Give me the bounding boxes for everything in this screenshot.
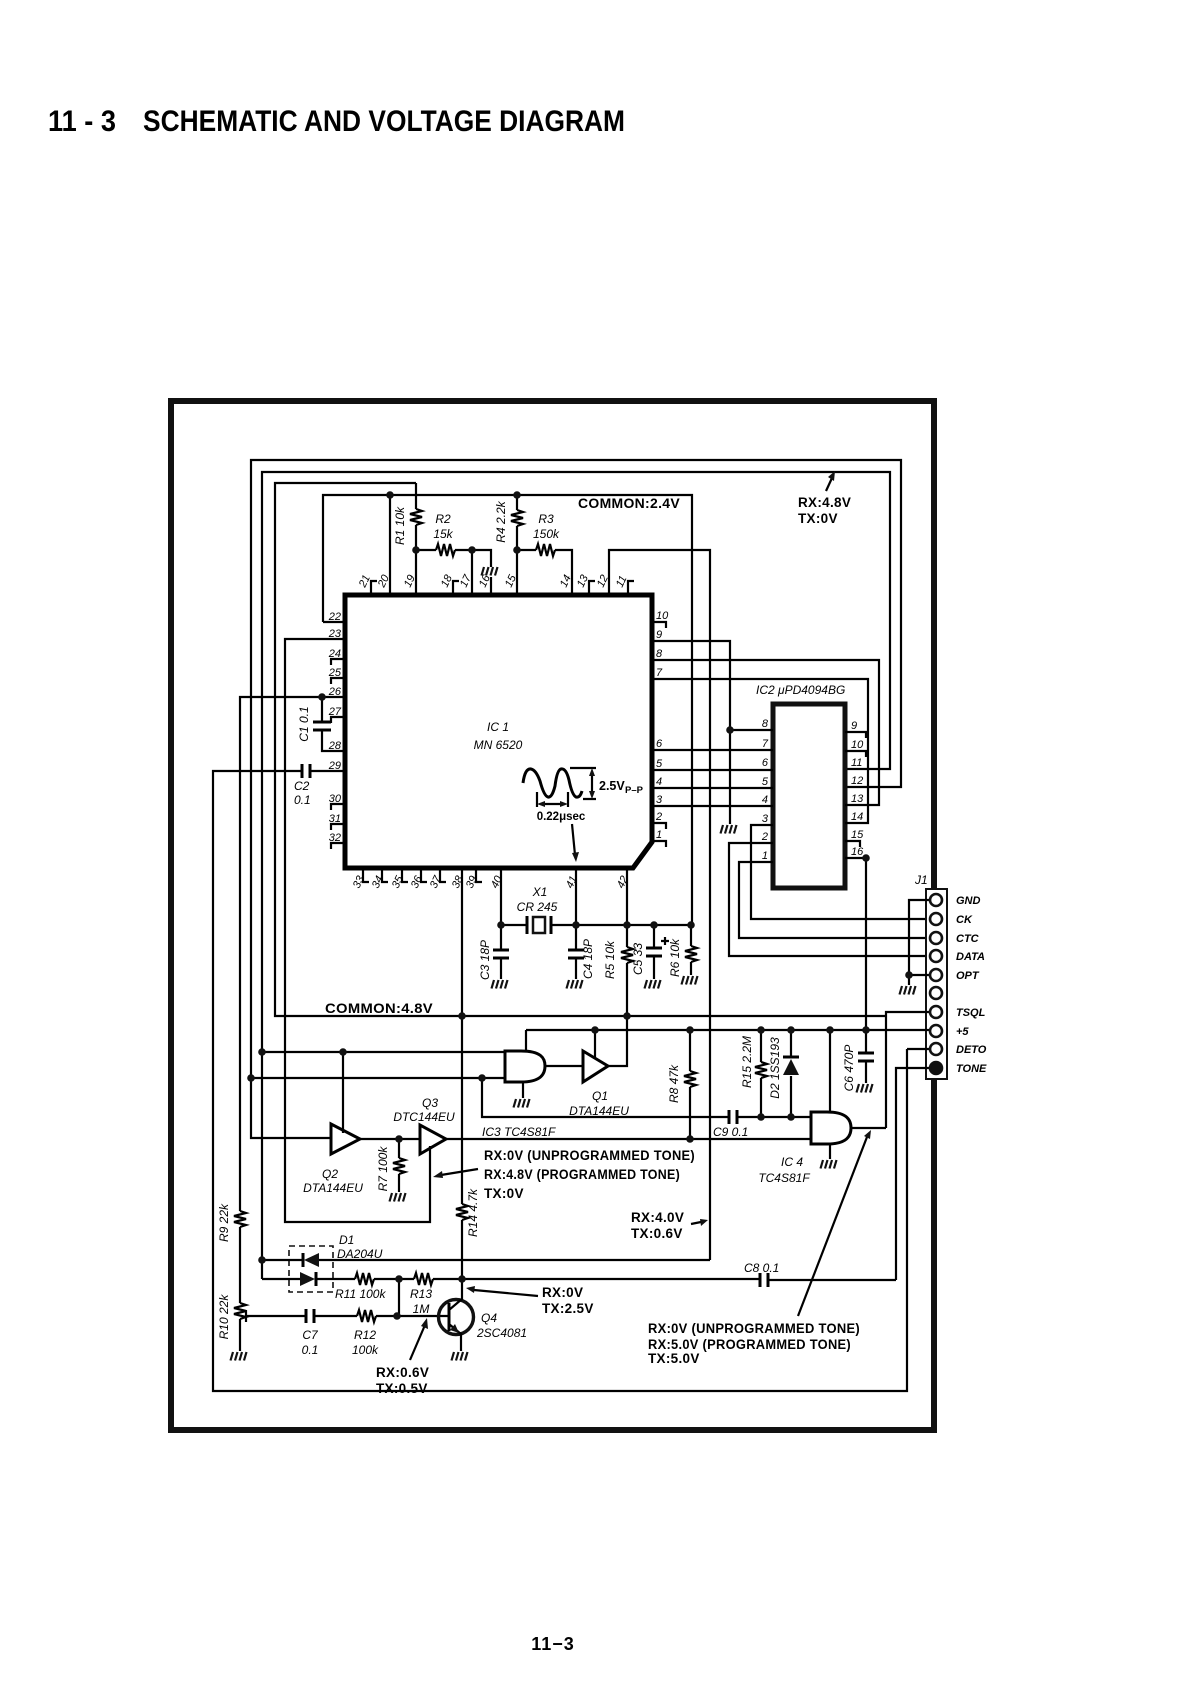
svg-text:TX:0V: TX:0V: [798, 511, 838, 526]
resistor R5 10k on pin42: [626, 868, 628, 947]
svg-text:TX:0.5V: TX:0.5V: [376, 1381, 428, 1396]
svg-text:C3 18P: C3 18P: [478, 940, 492, 980]
resistor R4 2.2k: [516, 495, 518, 510]
capacitor C5 33 electrolytic: [653, 925, 655, 979]
svg-text:C8 0.1: C8 0.1: [744, 1261, 779, 1275]
svg-text:TSQL: TSQL: [956, 1007, 986, 1019]
svg-text:X1: X1: [532, 885, 548, 899]
capacitor C2 0.1 on pin29 line: [213, 771, 907, 1391]
IC3 ground: [522, 1082, 524, 1098]
diode D2 1SS193: [790, 1030, 792, 1117]
svg-text:4: 4: [656, 776, 662, 788]
svg-text:TX:2.5V: TX:2.5V: [542, 1301, 594, 1316]
resistor R11 100k: [355, 1273, 374, 1285]
svg-text:TONE: TONE: [956, 1063, 987, 1075]
svg-text:14: 14: [851, 811, 863, 823]
svg-text:RX:0V: RX:0V: [542, 1285, 583, 1300]
svg-text:150k: 150k: [533, 527, 560, 541]
J1 pin DETO: [930, 1043, 942, 1055]
svg-text:D2 1SS193: D2 1SS193: [768, 1037, 782, 1099]
svg-text:11: 11: [851, 757, 862, 769]
resistor R15 2.2M: [760, 1030, 762, 1062]
wire IC1 pin23 to Q3 base loop: [285, 639, 430, 1222]
svg-text:C2: C2: [294, 779, 310, 793]
capacitor C3 18P: [500, 925, 502, 979]
svg-text:J1: J1: [914, 873, 928, 887]
svg-text:COMMON:2.4V: COMMON:2.4V: [578, 496, 680, 511]
outer schematic frame: [171, 401, 934, 1430]
svg-text:C7: C7: [302, 1328, 319, 1342]
wire IC1 pin7 to IC2 pin14: [652, 679, 868, 823]
resistor R10 22k: [234, 1303, 246, 1319]
svg-text:TC4S81F: TC4S81F: [758, 1171, 810, 1185]
svg-text:7: 7: [762, 738, 769, 750]
svg-text:RX:0.6V: RX:0.6V: [376, 1365, 429, 1380]
svg-text:MN 6520: MN 6520: [474, 738, 523, 752]
diode D1 DA204U dual: [289, 1246, 333, 1292]
wire COMMON 2.4V rect (pin22 to crystal bias): [323, 495, 692, 925]
svg-text:R6 10k: R6 10k: [668, 938, 682, 977]
transistor Q3 DTC144EU: [420, 1125, 446, 1154]
svg-text:1: 1: [762, 850, 768, 862]
wire tap to Q2 top: [342, 1052, 344, 1133]
svg-text:CR 245: CR 245: [517, 900, 558, 914]
J1 pin DATA: [930, 950, 942, 962]
svg-text:GND: GND: [956, 895, 981, 907]
svg-text:R13: R13: [410, 1287, 432, 1301]
svg-text:C9 0.1: C9 0.1: [713, 1125, 748, 1139]
svg-text:3: 3: [656, 794, 663, 806]
svg-text:4: 4: [762, 794, 768, 806]
resistor R7 100k: [398, 1139, 400, 1158]
svg-text:15: 15: [851, 829, 864, 841]
svg-text:IC2 μPD4094BG: IC2 μPD4094BG: [756, 683, 845, 697]
svg-text:+5: +5: [956, 1026, 969, 1038]
resistor R6 10k: [690, 925, 692, 946]
wire IC1 pin17 riser: [471, 550, 473, 595]
IC1 n.c. right pin stubs: [652, 622, 666, 847]
capacitor C1 0.1 (pin26 to pin28): [322, 697, 345, 751]
svg-text:R10 22k: R10 22k: [217, 1294, 231, 1340]
wire IC2 pin1 to CTC: [739, 862, 930, 938]
wire Q2 output to Q3 input: [360, 1138, 420, 1140]
svg-text:RX:5.0V (PROGRAMMED TONE): RX:5.0V (PROGRAMMED TONE): [648, 1337, 851, 1352]
wire IC2 pin3 to CK: [751, 825, 930, 919]
IC1 n.c. bottom pin stubs: [363, 868, 482, 882]
svg-text:3: 3: [762, 813, 769, 825]
capacitor C7 0.1 row from R9/R10 junction: [246, 1310, 357, 1322]
svg-text:8: 8: [656, 648, 663, 660]
resistor R14 4.7k on pin38 line: [461, 868, 463, 1204]
svg-text:P–P: P–P: [625, 785, 644, 796]
svg-text:R3: R3: [538, 512, 554, 526]
resistor R2 15k: [416, 549, 436, 551]
wire net rect-C COMMON 4.8V loop: [275, 483, 886, 1016]
wire IC3 upper input: [262, 1051, 505, 1053]
svg-text:DTA144EU: DTA144EU: [303, 1181, 363, 1195]
svg-text:9: 9: [656, 629, 662, 641]
wire IC2 pin2 to DATA: [729, 843, 930, 956]
svg-text:RX:4.0V: RX:4.0V: [631, 1210, 684, 1225]
svg-text:6: 6: [762, 757, 769, 769]
svg-text:11 - 3: 11 - 3: [48, 105, 116, 138]
svg-text:D1: D1: [339, 1233, 354, 1247]
J1 pin GND: [930, 894, 942, 906]
wire TONE to C8: [896, 1068, 930, 1280]
transistor Q4 2SC4081: [439, 1300, 474, 1335]
svg-text:R15 2.2M: R15 2.2M: [740, 1036, 754, 1088]
svg-text:1M: 1M: [413, 1302, 430, 1316]
svg-text:DATA: DATA: [956, 951, 985, 963]
wire IC3 lower input: [251, 1077, 505, 1079]
wire +5 rail: [526, 1029, 930, 1031]
wire net rect-A (IC2 pin12 / IC3 input / Q2 input loop): [251, 460, 901, 1138]
svg-text:RX:0V (UNPROGRAMMED TONE): RX:0V (UNPROGRAMMED TONE): [484, 1148, 695, 1163]
IC1 n.c. left pin stubs: [331, 659, 345, 849]
resistor R3 150k: [517, 549, 536, 551]
svg-text:2SC4081: 2SC4081: [476, 1326, 527, 1340]
svg-text:0.22μsec: 0.22μsec: [537, 811, 586, 823]
svg-text:Q2: Q2: [322, 1167, 338, 1181]
svg-text:R2: R2: [435, 512, 451, 526]
wire IC1 pin5 to IC2 pin6: [652, 769, 773, 771]
IC IC2 uPD4094BG body: [773, 704, 845, 888]
svg-text:2: 2: [761, 831, 768, 843]
svg-text:2: 2: [655, 811, 662, 823]
IC1 n.c. top pin stubs: [371, 581, 634, 595]
svg-text:R14 4.7k: R14 4.7k: [466, 1188, 480, 1237]
connector J1: [926, 889, 947, 1079]
IC2 right pin numbers: [851, 720, 864, 858]
svg-text:R8 47k: R8 47k: [667, 1064, 681, 1103]
IC2 n.c. stubs pins 9,10,15: [845, 732, 866, 847]
wire IC1 pin26 to R9/R10 chain: [240, 697, 345, 1211]
svg-text:0.1: 0.1: [294, 793, 311, 807]
wire R13/R11 junction riser: [398, 1279, 400, 1316]
svg-text:R7 100k: R7 100k: [376, 1146, 390, 1192]
transistor Q1 DTA144EU: [583, 1051, 608, 1082]
svg-text:5: 5: [762, 776, 769, 788]
svg-text:IC 4: IC 4: [781, 1155, 803, 1169]
svg-text:7: 7: [656, 667, 663, 679]
svg-text:9: 9: [851, 720, 857, 732]
svg-text:R1 10k: R1 10k: [393, 506, 407, 545]
svg-text:CK: CK: [956, 914, 973, 926]
svg-text:2.5V: 2.5V: [599, 779, 625, 793]
ground at R2 right / pin16: [472, 550, 491, 595]
wire TSQL to IC4 output: [886, 1012, 930, 1128]
IC1 right pin numbers: [655, 610, 669, 841]
svg-text:16: 16: [851, 846, 864, 858]
J1 pin TSQL: [930, 1006, 942, 1018]
svg-text:IC3 TC4S81F: IC3 TC4S81F: [482, 1125, 556, 1139]
svg-text:IC 1: IC 1: [487, 720, 509, 734]
svg-text:5: 5: [656, 758, 663, 770]
capacitor C4 18P: [575, 925, 577, 979]
J1 pin +5: [930, 1025, 942, 1037]
svg-text:6: 6: [656, 738, 663, 750]
svg-text:C4 18P: C4 18P: [581, 939, 595, 979]
wire DETO long loop (drawn with C2 above): [907, 1048, 930, 1050]
svg-text:13: 13: [851, 793, 864, 805]
arrow to pin41: [572, 824, 575, 855]
svg-text:1: 1: [656, 829, 662, 841]
wire IC2 pin16 to +5 rail and C6: [845, 858, 866, 1030]
svg-text:Q3: Q3: [422, 1096, 438, 1110]
svg-text:OPT: OPT: [956, 970, 980, 982]
wire IC1 pin8 to IC2 pin13: [652, 660, 879, 805]
svg-text:R12: R12: [354, 1328, 376, 1342]
resistor R8 47k: [689, 1030, 691, 1071]
IC1 top pin numbers: [356, 572, 629, 590]
transistor Q2 DTA144EU: [331, 1124, 360, 1154]
op-amp gate IC3 TC4S81F (AND): [505, 1051, 545, 1082]
IC2 left pin numbers: [761, 718, 769, 862]
svg-text:RX:4.8V (PROGRAMMED TONE): RX:4.8V (PROGRAMMED TONE): [484, 1167, 680, 1182]
resistor R9 22k: [234, 1211, 246, 1227]
IC IC1 MN6520 body: [345, 595, 652, 868]
IC3 power top feed: [525, 1030, 527, 1051]
svg-text:R9 22k: R9 22k: [217, 1203, 231, 1242]
svg-text:TX:0.6V: TX:0.6V: [631, 1226, 683, 1241]
svg-text:12: 12: [851, 775, 863, 787]
svg-text:11−3: 11−3: [531, 1634, 575, 1654]
svg-text:8: 8: [762, 718, 769, 730]
svg-text:0.1: 0.1: [302, 1343, 319, 1357]
J1 pin CK: [930, 913, 942, 925]
wire IC1 pin12 riser and long drop to D1: [609, 550, 710, 1260]
wire C9 row: [482, 1078, 811, 1117]
wire IC1 pin22 stub: [323, 621, 345, 623]
wire GND-OPT with ground: [909, 900, 930, 985]
wire IC3 output: [545, 1065, 583, 1067]
capacitor C6 470P: [865, 1030, 867, 1083]
wire IC1 pin20 riser to 2.4V rail: [389, 495, 391, 595]
crystal X1 CR245: [527, 916, 551, 934]
op-amp gate IC4 TC4S81F (AND): [811, 1112, 851, 1144]
svg-text:R5 10k: R5 10k: [603, 940, 617, 979]
J1 pin CTC: [930, 932, 942, 944]
wire Q3 output row to IC4 lower input: [446, 1138, 811, 1140]
capacitor C9 0.1: [729, 1110, 737, 1124]
wire IC1 pin9 to IC2 pin8/ground (DATA gnd net): [652, 641, 773, 824]
D1 lower diode (points right): [262, 1278, 355, 1280]
svg-text:C1 0.1: C1 0.1: [297, 706, 311, 741]
svg-text:C6 470P: C6 470P: [842, 1045, 856, 1092]
svg-text:DTC144EU: DTC144EU: [393, 1110, 455, 1124]
svg-text:Q1: Q1: [592, 1089, 608, 1103]
svg-text:10: 10: [656, 610, 669, 622]
wire IC1 pin4 to IC2 pin5: [652, 787, 773, 789]
svg-text:C5 33: C5 33: [631, 943, 645, 975]
svg-text:TX:0V: TX:0V: [484, 1186, 524, 1201]
J1 pin nc: [930, 987, 942, 999]
svg-text:10: 10: [851, 739, 864, 751]
svg-text:Q4: Q4: [481, 1311, 497, 1325]
wire Q1 output up to 4.8V node: [608, 1016, 627, 1066]
svg-text:COMMON:4.8V: COMMON:4.8V: [325, 1001, 433, 1016]
wire net rect-B (IC2 pin11 / IC3 input / D1 loop): [262, 472, 890, 1279]
svg-text:RX:0V (UNPROGRAMMED TONE): RX:0V (UNPROGRAMMED TONE): [648, 1321, 860, 1336]
svg-text:DETO: DETO: [956, 1044, 987, 1056]
svg-text:15k: 15k: [433, 527, 453, 541]
capacitor C8 0.1: [760, 1273, 768, 1287]
resistor R12 100k: [357, 1310, 376, 1322]
IC1 bottom pin numbers: [351, 873, 631, 890]
wire IC4 output: [851, 1127, 886, 1129]
svg-text:RX:4.8V: RX:4.8V: [798, 495, 851, 510]
svg-text:100k: 100k: [352, 1343, 379, 1357]
wire crystal node: [501, 868, 691, 925]
svg-text:R4 2.2k: R4 2.2k: [494, 500, 508, 542]
wire IC1 pin41 riser: [575, 868, 577, 925]
J1 pin OPT: [930, 969, 942, 981]
IC1 left pin numbers: [328, 611, 342, 844]
svg-text:SCHEMATIC AND VOLTAGE DIAGRAM: SCHEMATIC AND VOLTAGE DIAGRAM: [143, 105, 625, 138]
D1 upper diode (points left): [262, 1259, 710, 1261]
resistor R1 10k: [415, 483, 417, 509]
wire IC1 pin6 to IC2 pin7: [652, 749, 773, 751]
resistor R13 1M: [414, 1273, 433, 1285]
waveform 2.5Vp-p annotation: [523, 769, 582, 797]
J1 pin TONE: [930, 1062, 942, 1074]
svg-text:R11 100k: R11 100k: [335, 1287, 386, 1301]
svg-text:CTC: CTC: [956, 933, 980, 945]
wire IC1 pin3 to IC2 pin4: [652, 805, 773, 807]
svg-text:TX:5.0V: TX:5.0V: [648, 1351, 700, 1366]
